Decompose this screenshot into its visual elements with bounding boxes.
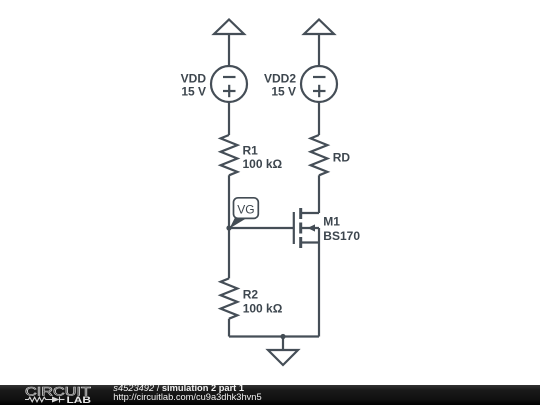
svg-text:VDD2: VDD2 — [264, 72, 296, 86]
svg-text:VG: VG — [237, 203, 254, 217]
svg-text:RD: RD — [333, 151, 351, 165]
svg-text:M1: M1 — [323, 215, 340, 229]
svg-text:R2: R2 — [243, 288, 259, 302]
svg-text:http://circuitlab.com/cu9a3dhk: http://circuitlab.com/cu9a3dhk3hvn5 — [113, 392, 261, 402]
svg-text:100 kΩ: 100 kΩ — [243, 157, 283, 171]
svg-text:15 V: 15 V — [271, 85, 296, 99]
svg-text:VDD: VDD — [181, 72, 207, 86]
svg-text:R1: R1 — [243, 144, 259, 158]
svg-text:LAB: LAB — [67, 395, 92, 405]
svg-text:BS170: BS170 — [323, 229, 360, 243]
svg-text:100 kΩ: 100 kΩ — [243, 302, 283, 316]
svg-text:15 V: 15 V — [181, 85, 206, 99]
